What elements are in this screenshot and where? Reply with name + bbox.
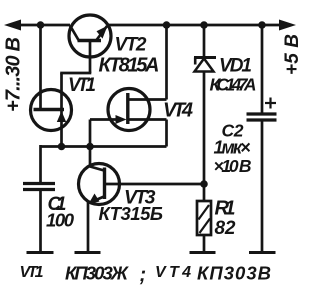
- svg-text:+7...30 В: +7...30 В: [3, 37, 25, 112]
- svg-text:КТ815А: КТ815А: [99, 55, 160, 77]
- svg-text:1мк×: 1мк×: [214, 138, 251, 158]
- svg-text:КП303В: КП303В: [197, 263, 271, 284]
- svg-text:VT2: VT2: [115, 35, 147, 56]
- svg-text:100: 100: [46, 210, 75, 231]
- svg-text:VT1: VT1: [20, 264, 44, 281]
- svg-text:КС147А: КС147А: [210, 75, 257, 95]
- svg-text:R1: R1: [215, 198, 236, 220]
- svg-text:+5 В: +5 В: [282, 34, 300, 75]
- svg-text:VT1: VT1: [68, 75, 96, 96]
- svg-text:КП303Ж: КП303Ж: [65, 263, 129, 284]
- svg-text:КТ315Б: КТ315Б: [99, 203, 164, 224]
- svg-text:VD1: VD1: [219, 56, 252, 77]
- svg-text:VT4: VT4: [163, 100, 193, 122]
- svg-text:;: ;: [140, 264, 147, 286]
- svg-text:82: 82: [215, 218, 236, 239]
- svg-text:×10 В: ×10 В: [214, 156, 252, 176]
- svg-text:VT4: VT4: [155, 264, 191, 281]
